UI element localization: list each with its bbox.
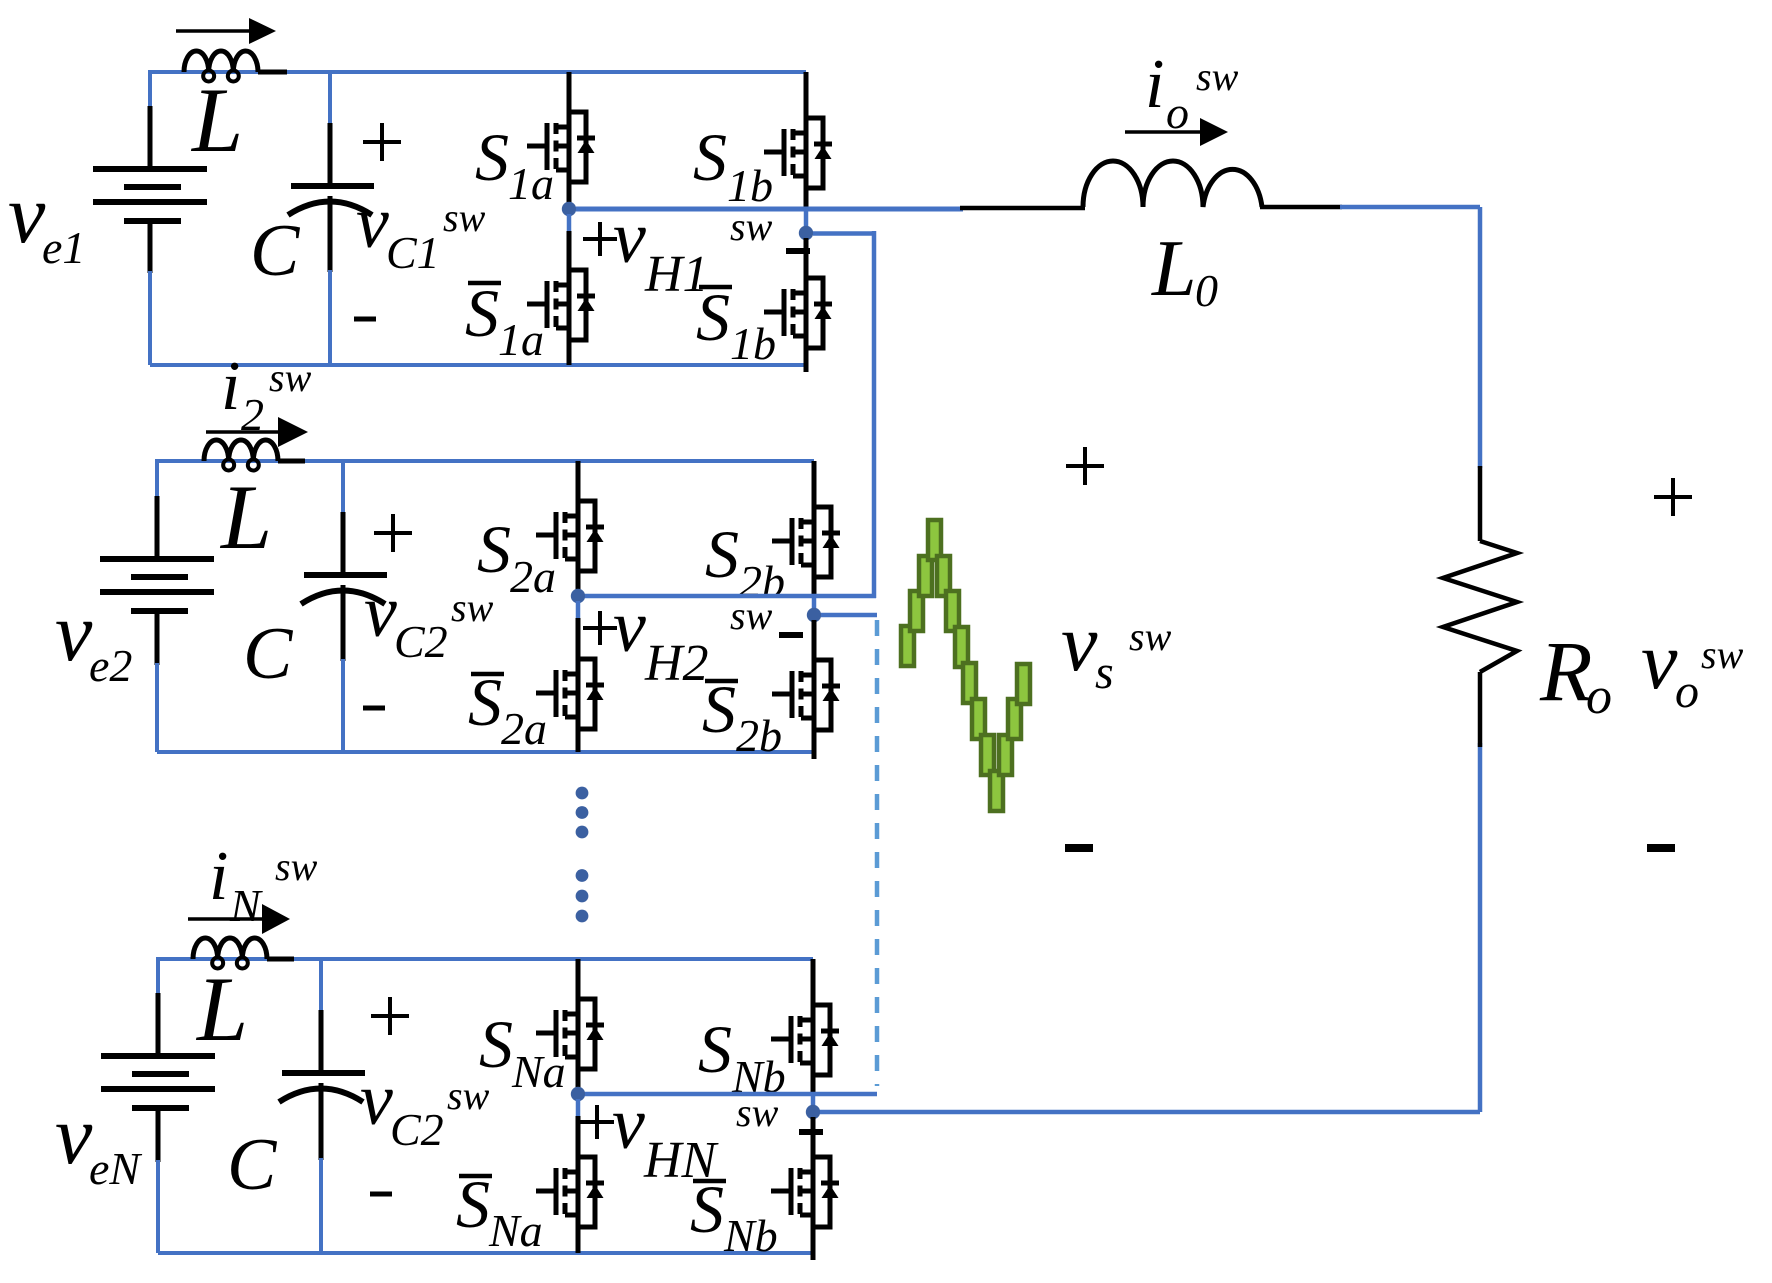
- wire module 2 left leg bottom: [576, 747, 581, 752]
- svg-text:sw: sw: [443, 195, 486, 240]
- wire module N left node link: [585, 1092, 877, 1097]
- label S-bar_Nb: [693, 1179, 726, 1184]
- svg-text:sw: sw: [730, 593, 773, 638]
- transistor S-bar_Nb: [771, 1153, 839, 1247]
- svg-text:S: S: [475, 119, 509, 195]
- inductor L (module 2): [278, 459, 305, 464]
- svg-text:L: L: [190, 69, 243, 171]
- wire module 1 top rail: [150, 70, 806, 74]
- battery VN (v_eN): [101, 1053, 215, 1059]
- svg-text:eN: eN: [89, 1143, 142, 1194]
- svg-text:v: v: [356, 182, 389, 264]
- transistor S_1a: [527, 108, 595, 202]
- wire after L0: [1260, 205, 1342, 210]
- transistor S_2b: [772, 503, 840, 597]
- label - capacitor module N: [370, 1192, 392, 1197]
- wire module 1 right node stub: [804, 209, 809, 228]
- svg-text:2a: 2a: [501, 703, 547, 754]
- svg-text:sw: sw: [1196, 54, 1239, 99]
- wire module 1 left leg upper: [567, 72, 572, 110]
- svg-text:v: v: [8, 168, 46, 261]
- current arrow i_o: [1125, 130, 1202, 134]
- svg-text:Na: Na: [488, 1205, 543, 1256]
- wire L0 to resistor: [1340, 205, 1480, 210]
- wire module 1 left leg lower: [567, 231, 572, 268]
- label S-bar_1a: [468, 281, 501, 286]
- label +v_HN sw -: [580, 1120, 614, 1124]
- transistor S_Na: [536, 995, 604, 1089]
- wire module 1 bottom rail: [150, 363, 806, 367]
- wire module 1 capacitor branch: [328, 72, 332, 125]
- wire module N left leg lower: [576, 1116, 581, 1155]
- wire module 1 left leg to node: [567, 200, 572, 204]
- label - capacitor module 1: [354, 317, 376, 322]
- node module N right midpoint: [806, 1105, 820, 1119]
- svg-text:S: S: [705, 516, 739, 592]
- svg-text:S: S: [465, 275, 499, 351]
- label + capacitor module 2: [374, 531, 412, 535]
- stepped sine waveform v_s: [901, 520, 1030, 811]
- wire module 2 capacitor branch: [341, 461, 345, 514]
- label - string voltage v_s: [1065, 844, 1093, 852]
- svg-text:S: S: [698, 1011, 732, 1087]
- node module 2 left midpoint: [571, 589, 585, 603]
- svg-text:sw: sw: [736, 1090, 779, 1135]
- capacitor C (module 1): [291, 183, 374, 189]
- transistor S-bar_2b: [772, 656, 840, 750]
- svg-text:e2: e2: [89, 640, 132, 691]
- wire module 2 right node stub: [812, 596, 817, 610]
- svg-text:v: v: [360, 1059, 393, 1141]
- svg-text:R: R: [1539, 623, 1593, 719]
- wire module 2 right node stub to dashed link: [821, 613, 877, 618]
- wire module 1 right leg below FET: [804, 206, 809, 209]
- wire module N right node to load return: [820, 1110, 1480, 1115]
- current arrow iN: [188, 917, 264, 921]
- capacitor C (module N): [282, 1070, 365, 1076]
- wire module N left vertical: [156, 957, 160, 1010]
- wire module N right leg lower: [811, 1117, 816, 1155]
- wire module 2 left node stub: [576, 601, 581, 620]
- label + capacitor module 1: [363, 140, 401, 144]
- wire module 2 left vertical: [155, 459, 159, 510]
- svg-text:o: o: [1586, 668, 1612, 725]
- transistor S_Nb: [771, 1001, 839, 1095]
- svg-text:sw: sw: [269, 355, 312, 400]
- wire module1 right node to module2 left node (series link): [813, 231, 874, 236]
- svg-text:v: v: [613, 586, 646, 668]
- wire module N right leg upper: [811, 959, 816, 1003]
- wire module N left leg upper: [576, 959, 581, 997]
- svg-text:C: C: [243, 613, 294, 695]
- svg-text:sw: sw: [451, 585, 494, 630]
- node module 2 right midpoint: [807, 608, 821, 622]
- svg-text:2: 2: [241, 389, 264, 440]
- svg-text:v: v: [55, 586, 93, 679]
- transistor S_1b: [764, 114, 832, 208]
- current arrow i2: [206, 430, 280, 434]
- wire module N bottom rail: [158, 1251, 813, 1255]
- wire module N right leg bottom: [811, 1245, 816, 1260]
- wire module 2 left leg lower: [576, 618, 581, 657]
- svg-text:H1: H1: [644, 246, 709, 303]
- svg-text:o: o: [1675, 665, 1699, 718]
- svg-text:S: S: [456, 1166, 490, 1242]
- svg-text:C1: C1: [386, 227, 440, 278]
- wire module 1 right leg bottom: [804, 366, 809, 372]
- wire module 1 left node stub: [567, 214, 572, 233]
- battery V2 (v_e2): [100, 556, 214, 562]
- svg-text:2a: 2a: [510, 551, 556, 602]
- wire module 1 output node to L0: [576, 207, 963, 212]
- svg-text:L: L: [219, 466, 272, 568]
- svg-text:L: L: [195, 958, 248, 1060]
- svg-text:0: 0: [1195, 265, 1218, 316]
- svg-text:i: i: [221, 348, 240, 425]
- wire module 1 left leg bottom: [567, 358, 572, 365]
- svg-text:C: C: [250, 210, 301, 292]
- label - capacitor module 2: [363, 706, 385, 711]
- label S-bar_1b: [699, 285, 732, 290]
- svg-text:N: N: [229, 880, 263, 931]
- wire module 2 top rail: [157, 459, 814, 463]
- node module 1 right midpoint: [799, 226, 813, 240]
- node module N left midpoint: [571, 1087, 585, 1101]
- label +v_H2 sw -: [583, 626, 617, 630]
- wire module N left leg to node: [576, 1087, 581, 1089]
- node module 1 left midpoint: [562, 202, 576, 216]
- wire module N capacitor branch: [319, 959, 323, 1012]
- svg-text:v: v: [1061, 597, 1098, 688]
- wire module 2 right leg bottom: [812, 748, 817, 759]
- svg-text:2b: 2b: [736, 710, 782, 761]
- wire module N right node stub: [811, 1094, 816, 1107]
- svg-text:Na: Na: [511, 1046, 566, 1097]
- wire module N left node stub: [576, 1099, 581, 1118]
- resistor R_o: [1478, 466, 1483, 541]
- wire module 1 right leg lower: [804, 238, 809, 276]
- svg-text:sw: sw: [1129, 614, 1172, 659]
- wire dashed series link (module 2 to module N): [875, 620, 880, 1086]
- label + string voltage v_s: [1066, 464, 1104, 468]
- wire module 1 right leg upper: [804, 72, 809, 116]
- svg-text:o: o: [1166, 87, 1189, 138]
- transistor S-bar_1b: [764, 274, 832, 368]
- svg-text:H2: H2: [644, 635, 709, 692]
- svg-text:1b: 1b: [730, 318, 776, 369]
- svg-text:1a: 1a: [508, 158, 554, 209]
- current arrow i1: [176, 29, 251, 33]
- svg-text:i: i: [1145, 46, 1164, 123]
- capacitor C (module 2): [304, 572, 387, 578]
- svg-text:s: s: [1095, 646, 1114, 699]
- svg-text:C2: C2: [390, 1104, 444, 1155]
- node ellipsis dots between module 2 and N: [576, 787, 589, 800]
- transistor S-bar_2a: [536, 655, 604, 749]
- transistor S-bar_Na: [536, 1153, 604, 1247]
- wire module 2 right leg lower: [812, 620, 817, 658]
- inductor L (module N): [267, 957, 294, 962]
- battery V1 (v_e1): [93, 166, 207, 172]
- wire module N left leg bottom: [576, 1245, 581, 1253]
- svg-text:v: v: [364, 571, 397, 653]
- label + output voltage: [1654, 495, 1692, 499]
- svg-text:S: S: [468, 664, 502, 740]
- svg-text:v: v: [1641, 615, 1678, 706]
- wire module N right leg below FET: [811, 1093, 816, 1094]
- wire module 2 left leg to node: [576, 589, 581, 591]
- label + capacitor module N: [371, 1014, 409, 1018]
- label S-bar_2a: [471, 672, 504, 677]
- transistor S-bar_1a: [527, 266, 595, 360]
- svg-text:i: i: [209, 838, 228, 915]
- wire module 2 right leg upper: [812, 461, 817, 505]
- svg-text:e1: e1: [42, 222, 85, 273]
- svg-text:HN: HN: [643, 1132, 720, 1189]
- label +v_H1 sw -: [583, 237, 617, 241]
- svg-text:S: S: [479, 1006, 513, 1082]
- label S-bar_Na: [459, 1174, 492, 1179]
- wire to output inductor: [960, 206, 1085, 211]
- wire module 1 left vertical: [148, 70, 152, 120]
- inductor L0: [1083, 161, 1262, 207]
- inductor L (module 1): [258, 70, 287, 75]
- svg-text:1a: 1a: [498, 314, 544, 365]
- wire module 2 bottom rail: [157, 750, 814, 754]
- svg-text:sw: sw: [1701, 632, 1744, 677]
- svg-text:S: S: [477, 511, 511, 587]
- svg-text:v: v: [55, 1089, 93, 1182]
- wire module 2 right leg below FET: [812, 595, 817, 596]
- wire module 2 left leg upper: [576, 461, 581, 499]
- svg-text:Nb: Nb: [723, 1210, 778, 1261]
- svg-text:S: S: [693, 119, 727, 195]
- transistor S_2a: [536, 497, 604, 591]
- svg-text:L: L: [1151, 225, 1197, 313]
- wire module N top rail: [158, 957, 813, 961]
- svg-text:C2: C2: [394, 616, 448, 667]
- svg-text:sw: sw: [275, 844, 318, 889]
- label - output voltage: [1647, 844, 1675, 852]
- label S-bar_2b: [705, 679, 738, 684]
- svg-text:C: C: [227, 1124, 278, 1206]
